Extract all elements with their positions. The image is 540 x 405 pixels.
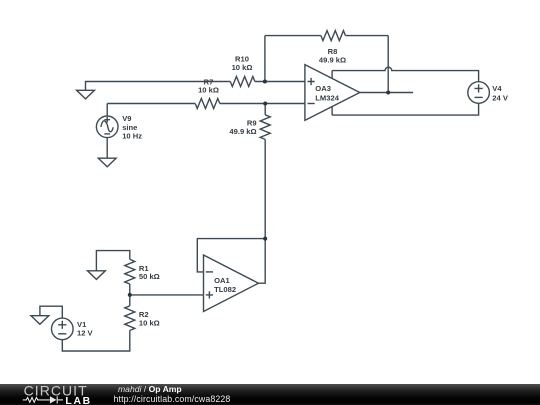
voltage source V1 (12 V DC) — [52, 318, 74, 340]
svg-text:10 kΩ: 10 kΩ — [198, 86, 219, 95]
ground (above R1) — [88, 251, 130, 280]
wire OA3 V+ to V4 + (with hop over R8 leg) — [332, 67, 479, 82]
ground (left of V1) — [31, 316, 49, 325]
junction node (R1/R2 divider) — [128, 293, 132, 297]
voltage source V4 (24 V DC) — [468, 82, 490, 104]
svg-text:V4: V4 — [492, 84, 502, 93]
wire OA3 V- to V4 - — [332, 104, 479, 116]
wire R8 right leg down to output — [387, 36, 389, 93]
junction node (OA3 output / R8) — [386, 91, 390, 95]
wire R2 bottom to V1 - — [62, 330, 130, 351]
resistor R2 — [125, 306, 135, 331]
resistor R1 — [125, 259, 135, 284]
ground (below V9) — [98, 158, 116, 167]
svg-text:49.9 kΩ: 49.9 kΩ — [319, 56, 346, 65]
ground (top-left, non-inverting input net) — [77, 82, 231, 99]
svg-text:R10: R10 — [235, 54, 249, 63]
wire junction to OA1 + input — [130, 294, 204, 296]
footer title text — [118, 385, 230, 403]
wire R8 loop top left — [265, 35, 321, 37]
svg-text:50 kΩ: 50 kΩ — [139, 272, 160, 281]
CircuitLab logo — [0, 384, 100, 405]
svg-text:TL082: TL082 — [214, 285, 236, 294]
resistor R7 — [195, 99, 220, 109]
wire OA1 feedback (- input to output riser) — [197, 239, 265, 272]
resistor R8 — [321, 31, 346, 41]
wire R1 bottom to R2 top — [129, 284, 131, 306]
footer bar — [0, 384, 540, 405]
wire V9 to R7 — [107, 103, 195, 105]
svg-text:OA3: OA3 — [315, 84, 331, 93]
wire OA3 output stub — [360, 92, 413, 94]
svg-text:10 kΩ: 10 kΩ — [232, 63, 253, 72]
voltage source V9 (sine) — [96, 104, 118, 159]
wire V1 + hook to ground — [40, 306, 62, 318]
op-amp OA3 LM324 — [305, 65, 360, 121]
wire R10 to OA3 + input — [255, 81, 305, 83]
wire R8 loop top right — [346, 35, 389, 37]
resistor R10 — [230, 77, 255, 87]
resistor R9 — [260, 104, 270, 140]
svg-text:OA1: OA1 — [214, 276, 230, 285]
junction node (OA1 feedback / output riser) — [263, 237, 267, 241]
op-amp OA1 TL082 — [204, 255, 259, 312]
svg-text:LAB: LAB — [65, 396, 91, 405]
wire R7 to OA3 - input — [220, 103, 305, 105]
junction node (R9 top / - input) — [263, 102, 267, 106]
junction node (R8 left leg / + input) — [263, 80, 267, 84]
svg-text:12 V: 12 V — [77, 328, 94, 337]
svg-text:10 kΩ: 10 kΩ — [139, 318, 160, 327]
svg-text:24 V: 24 V — [492, 93, 509, 102]
svg-text:10 Hz: 10 Hz — [122, 131, 142, 140]
wire R9 bottom to OA1 output riser — [259, 139, 266, 283]
wire vertical to R8 loop (left leg) — [264, 36, 266, 82]
svg-text:LM324: LM324 — [315, 94, 339, 103]
svg-text:49.9 kΩ: 49.9 kΩ — [229, 127, 256, 136]
